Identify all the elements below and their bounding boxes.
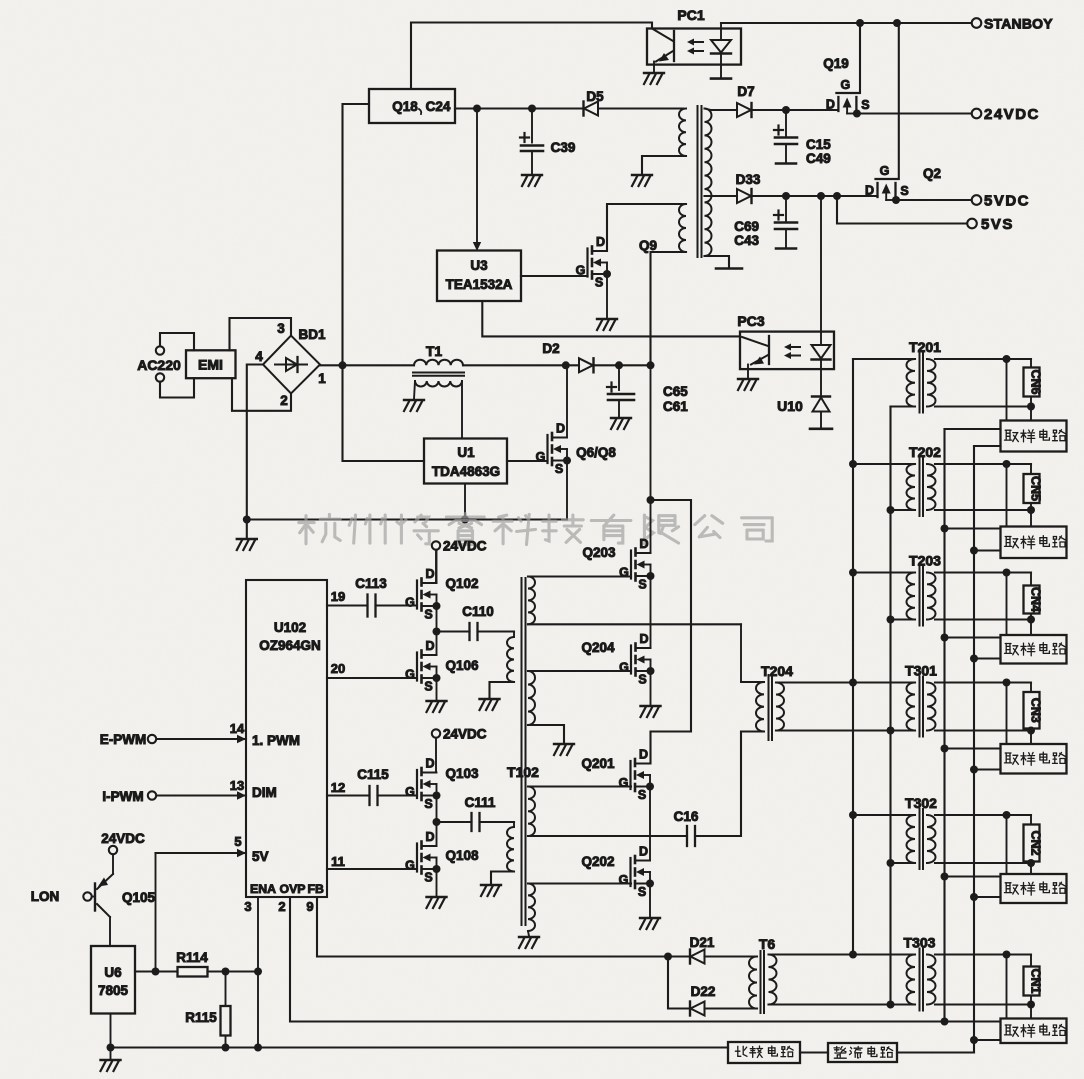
svg-text:T1: T1	[426, 343, 443, 359]
svg-text:T202: T202	[909, 444, 941, 460]
svg-text:C39: C39	[551, 140, 576, 155]
svg-text:TDA4863G: TDA4863G	[432, 464, 500, 479]
svg-text:ENA: ENA	[250, 882, 276, 896]
svg-text:C43: C43	[734, 233, 759, 248]
svg-text:TEA1532A: TEA1532A	[446, 277, 513, 292]
svg-text:CN5: CN5	[1029, 476, 1043, 501]
svg-text:D: D	[425, 639, 434, 653]
svg-text:D: D	[639, 632, 648, 646]
svg-text:R115: R115	[185, 1010, 217, 1025]
svg-text:LON: LON	[31, 889, 60, 904]
svg-text:S: S	[638, 885, 646, 899]
svg-text:S: S	[638, 673, 646, 687]
svg-text:D: D	[556, 422, 565, 436]
svg-text:CN6: CN6	[1029, 369, 1043, 394]
svg-text:5: 5	[234, 834, 241, 849]
svg-text:Q19: Q19	[823, 56, 849, 71]
svg-text:S: S	[595, 276, 603, 290]
svg-text:Q201: Q201	[581, 756, 615, 771]
svg-text:G: G	[619, 776, 629, 790]
svg-text:13: 13	[230, 778, 244, 793]
svg-text:G: G	[405, 785, 415, 799]
svg-text:Q9: Q9	[639, 238, 657, 253]
svg-text:Q105: Q105	[122, 890, 156, 905]
svg-text:G: G	[619, 566, 629, 580]
svg-text:CN4: CN4	[1029, 587, 1043, 612]
svg-text:C110: C110	[462, 604, 494, 619]
svg-text:G: G	[576, 264, 586, 278]
svg-text:S: S	[555, 462, 563, 476]
svg-text:T301: T301	[905, 663, 937, 679]
svg-text:DIM: DIM	[252, 785, 277, 800]
svg-text:D: D	[639, 537, 648, 551]
svg-text:S: S	[638, 788, 646, 802]
svg-text:S: S	[424, 680, 432, 694]
svg-text:14: 14	[230, 721, 245, 736]
svg-text:C61: C61	[663, 399, 688, 414]
svg-text:1: 1	[318, 371, 326, 386]
svg-text:24VDC: 24VDC	[101, 831, 145, 846]
svg-text:Q102: Q102	[445, 576, 478, 591]
svg-text:19: 19	[331, 589, 345, 604]
svg-text:D: D	[425, 757, 434, 771]
svg-text:3: 3	[277, 321, 285, 336]
svg-text:T204: T204	[761, 663, 793, 679]
svg-text:Q6/Q8: Q6/Q8	[576, 445, 616, 460]
svg-text:G: G	[619, 873, 629, 887]
svg-text:5VDC: 5VDC	[984, 193, 1030, 210]
svg-text:S: S	[424, 608, 432, 622]
svg-text:9: 9	[306, 899, 313, 914]
svg-text:D: D	[865, 184, 874, 198]
svg-text:PC1: PC1	[677, 7, 704, 23]
svg-text:Q204: Q204	[581, 640, 615, 655]
svg-text:G: G	[536, 450, 546, 464]
svg-text:Q106: Q106	[445, 658, 479, 673]
svg-text:G: G	[405, 859, 415, 873]
svg-text:CN1: CN1	[1029, 968, 1043, 993]
svg-text:D7: D7	[737, 84, 754, 99]
svg-text:Q103: Q103	[445, 766, 479, 781]
svg-text:FB: FB	[308, 882, 325, 896]
svg-text:C111: C111	[465, 795, 496, 810]
svg-text:20: 20	[331, 661, 345, 676]
svg-text:D22: D22	[691, 984, 716, 999]
svg-text:S: S	[861, 98, 869, 112]
svg-text:S: S	[424, 871, 432, 885]
svg-text:Q202: Q202	[581, 854, 614, 869]
svg-text:D21: D21	[690, 935, 715, 950]
svg-text:C113: C113	[355, 576, 387, 591]
svg-text:Q108: Q108	[445, 848, 479, 863]
svg-text:C65: C65	[663, 384, 688, 399]
svg-text:OVP: OVP	[280, 882, 306, 896]
svg-text:U6: U6	[104, 965, 122, 980]
svg-text:CN2: CN2	[1029, 830, 1043, 855]
svg-text:D: D	[639, 748, 648, 762]
svg-text:G: G	[880, 164, 890, 178]
svg-text:D: D	[596, 235, 605, 249]
svg-text:G: G	[405, 596, 415, 610]
svg-text:S: S	[424, 797, 432, 811]
svg-text:T201: T201	[909, 339, 941, 355]
svg-text:1. PWM: 1. PWM	[252, 733, 300, 748]
svg-text:T102: T102	[507, 764, 539, 780]
svg-text:24VDC: 24VDC	[443, 727, 487, 742]
svg-text:11: 11	[331, 854, 345, 869]
svg-text:C24: C24	[426, 99, 451, 114]
svg-text:3: 3	[244, 899, 251, 914]
svg-text:S: S	[638, 578, 646, 592]
svg-text:Q2: Q2	[923, 166, 941, 181]
svg-text:PC3: PC3	[737, 313, 764, 329]
svg-text:AC220: AC220	[137, 357, 181, 373]
svg-text:T302: T302	[905, 795, 937, 811]
svg-text:7805: 7805	[98, 983, 129, 998]
svg-text:T203: T203	[909, 553, 941, 569]
svg-text:D2: D2	[542, 341, 559, 356]
svg-text:Q203: Q203	[582, 545, 616, 560]
svg-text:CN3: CN3	[1029, 698, 1043, 723]
svg-text:2: 2	[278, 899, 285, 914]
svg-text:U1: U1	[457, 445, 475, 460]
svg-text:G: G	[405, 668, 415, 682]
svg-text:24VDC: 24VDC	[984, 106, 1040, 123]
svg-text:5V: 5V	[252, 849, 269, 864]
svg-text:D: D	[826, 98, 835, 112]
svg-text:D: D	[425, 830, 434, 844]
svg-text:I-PWM: I-PWM	[102, 789, 143, 804]
svg-text:C49: C49	[806, 151, 831, 166]
svg-text:U3: U3	[470, 258, 488, 273]
svg-text:G: G	[619, 661, 629, 675]
svg-text:C115: C115	[357, 767, 389, 782]
svg-text:4: 4	[255, 349, 263, 364]
svg-text:U10: U10	[777, 398, 803, 414]
svg-text:D: D	[425, 567, 434, 581]
svg-text:C16: C16	[674, 809, 699, 824]
svg-text:2: 2	[280, 393, 288, 408]
svg-text:Q18: Q18	[392, 99, 418, 114]
svg-text:24VDC: 24VDC	[443, 539, 487, 554]
svg-text:T6: T6	[759, 936, 776, 952]
svg-text:T303: T303	[904, 935, 936, 951]
svg-text:OZ964GN: OZ964GN	[259, 638, 321, 653]
svg-text:STANBOY: STANBOY	[984, 16, 1053, 32]
svg-text:C69: C69	[734, 219, 759, 234]
svg-text:D33: D33	[736, 172, 761, 187]
svg-text:R114: R114	[176, 950, 208, 965]
svg-text:BD1: BD1	[298, 327, 325, 342]
svg-text:C15: C15	[806, 137, 831, 152]
svg-text:12: 12	[331, 780, 345, 795]
svg-text:D5: D5	[586, 89, 604, 104]
svg-text:U102: U102	[274, 620, 306, 635]
svg-text:E-PWM: E-PWM	[100, 732, 147, 747]
svg-text:EMI: EMI	[198, 357, 223, 373]
svg-text:S: S	[900, 184, 908, 198]
svg-text:D: D	[639, 845, 648, 859]
svg-text:G: G	[841, 78, 851, 92]
svg-text:5VS: 5VS	[981, 216, 1014, 233]
